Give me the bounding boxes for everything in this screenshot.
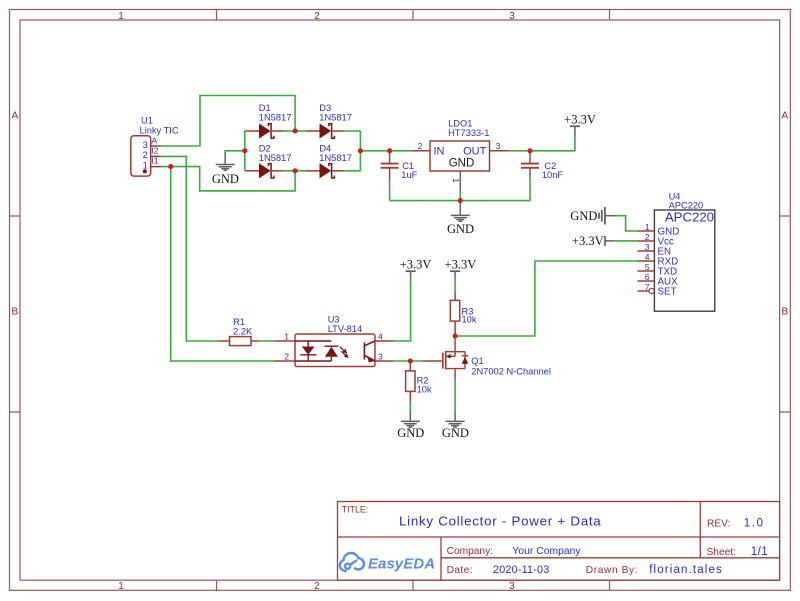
- svg-text:1N5817: 1N5817: [259, 113, 292, 123]
- svg-text:GND: GND: [442, 426, 469, 440]
- svg-text:3: 3: [509, 11, 515, 22]
- regulator LDO1 HT7333-1: [412, 119, 509, 201]
- svg-text:I2: I2: [151, 145, 158, 155]
- wire Q1 drain to U4 RXD: [455, 261, 637, 336]
- svg-text:+3.3V: +3.3V: [572, 234, 604, 248]
- svg-text:3: 3: [378, 351, 383, 361]
- svg-text:3: 3: [509, 581, 515, 592]
- wire U3.3 to Q1 gate: [394, 360, 423, 362]
- U1 pin 1: [151, 166, 161, 168]
- svg-text:10k: 10k: [462, 314, 477, 324]
- svg-text:A: A: [781, 110, 788, 121]
- svg-text:2: 2: [314, 11, 320, 22]
- power flag +3.3V (U3): [400, 257, 432, 278]
- svg-text:1: 1: [118, 11, 124, 22]
- svg-text:Linky TIC: Linky TIC: [140, 126, 179, 136]
- svg-text:OUT: OUT: [463, 146, 487, 158]
- ground (Q1): [446, 411, 465, 427]
- svg-text:2: 2: [284, 351, 289, 361]
- wire bridge out to LDO IN: [360, 150, 412, 152]
- svg-text:APC220: APC220: [665, 209, 714, 224]
- svg-text:B: B: [781, 306, 788, 317]
- svg-text:HT7333-1: HT7333-1: [448, 128, 489, 138]
- svg-text:1: 1: [143, 160, 148, 170]
- wire GND tap: [225, 151, 245, 154]
- svg-text:EasyEDA: EasyEDA: [368, 557, 435, 573]
- svg-text:TITLE:: TITLE:: [342, 505, 368, 515]
- svg-text:3: 3: [496, 141, 501, 151]
- svg-text:1: 1: [645, 222, 650, 232]
- svg-text:2: 2: [645, 232, 650, 242]
- svg-text:LDO1: LDO1: [448, 119, 472, 129]
- capacitor C2: [521, 151, 563, 201]
- wire net I1: U1.1 staircase to bridge bottom mid: [161, 167, 295, 191]
- svg-text:APC220: APC220: [669, 200, 704, 210]
- connector U4 APC220: [638, 192, 715, 312]
- svg-text:2: 2: [143, 150, 148, 160]
- svg-text:3: 3: [645, 242, 650, 252]
- svg-text:Date:: Date:: [447, 565, 473, 576]
- svg-text:Sheet:: Sheet:: [707, 547, 736, 558]
- svg-text:Linky Collector - Power + Data: Linky Collector - Power + Data: [399, 514, 601, 529]
- svg-text:10nF: 10nF: [542, 170, 564, 180]
- wire U3.4 to +3.3V: [394, 278, 411, 341]
- svg-text:4: 4: [378, 331, 383, 341]
- svg-text:Q1: Q1: [471, 356, 483, 366]
- EasyEDA logo: [340, 553, 364, 571]
- svg-text:2.2K: 2.2K: [233, 326, 253, 336]
- svg-text:1: 1: [451, 178, 461, 183]
- power flag +3.3V (LDO out): [564, 113, 596, 136]
- svg-text:1.0: 1.0: [744, 517, 765, 529]
- svg-text:7: 7: [645, 282, 650, 292]
- svg-text:Company:: Company:: [447, 546, 493, 557]
- svg-text:SET: SET: [658, 286, 677, 297]
- svg-text:3: 3: [143, 140, 148, 150]
- svg-text:10k: 10k: [417, 385, 432, 395]
- svg-text:2020-11-03: 2020-11-03: [493, 564, 549, 576]
- svg-text:U3: U3: [328, 315, 340, 325]
- svg-text:2: 2: [418, 141, 423, 151]
- svg-text:6: 6: [645, 272, 650, 282]
- svg-text:REV:: REV:: [707, 518, 730, 529]
- svg-text:+3.3V: +3.3V: [400, 257, 432, 271]
- wire net I2: U1.2 down to R1: [161, 156, 220, 341]
- U3 pin4 stub: [375, 340, 394, 342]
- U1 pin 3: [151, 145, 161, 147]
- svg-text:1/1: 1/1: [751, 546, 769, 558]
- svg-text:1N5817: 1N5817: [259, 153, 292, 163]
- resistor R3: [450, 278, 477, 336]
- U3 pin3 stub: [375, 360, 394, 362]
- svg-text:GND: GND: [397, 426, 424, 440]
- svg-text:U1: U1: [141, 116, 153, 126]
- svg-text:I1: I1: [151, 156, 158, 166]
- svg-text:1: 1: [284, 331, 289, 341]
- svg-text:Drawn By:: Drawn By:: [586, 565, 638, 576]
- svg-text:florian.tales: florian.tales: [649, 564, 723, 576]
- diode D1: [245, 103, 295, 138]
- svg-text:GND: GND: [447, 222, 474, 236]
- ground (bridge): [216, 154, 235, 171]
- svg-text:IN: IN: [434, 146, 445, 158]
- wire bottom rail C1-C2: [390, 200, 530, 202]
- wire net A: U1.3 to bridge top mid: [161, 96, 295, 147]
- transistor Q1 2N7002: [423, 336, 551, 411]
- wire bridge left rail: [244, 131, 246, 171]
- svg-text:1uF: 1uF: [401, 170, 417, 180]
- U1 pin 2: [151, 155, 161, 157]
- ground flag (U4 GND): [570, 207, 637, 231]
- svg-text:4: 4: [645, 252, 650, 262]
- svg-text:LTV-814: LTV-814: [328, 324, 362, 334]
- svg-text:1N5817: 1N5817: [319, 153, 352, 163]
- ground (LDO): [451, 201, 470, 222]
- svg-text:GND: GND: [212, 172, 239, 186]
- power flag +3.3V (R3): [445, 257, 477, 278]
- svg-text:+3.3V: +3.3V: [445, 257, 477, 271]
- power flag +3.3V (U4 Vcc): [572, 234, 638, 248]
- junction dots: [168, 128, 532, 363]
- wire net I1 branch down to U3.2: [171, 167, 275, 361]
- svg-text:Your Company: Your Company: [512, 546, 581, 557]
- optocoupler U3 LTV-814: [275, 315, 384, 367]
- svg-text:A: A: [11, 110, 18, 121]
- svg-text:+3.3V: +3.3V: [564, 113, 596, 127]
- svg-text:1: 1: [118, 581, 124, 592]
- ground (R2): [401, 411, 420, 427]
- resistor R1: [220, 317, 276, 346]
- svg-text:5: 5: [645, 262, 650, 272]
- svg-text:B: B: [11, 306, 18, 317]
- svg-text:GND: GND: [449, 157, 475, 169]
- svg-text:GND: GND: [570, 209, 597, 223]
- svg-text:2N7002 N-Channel: 2N7002 N-Channel: [471, 367, 551, 377]
- diode D4: [295, 144, 360, 178]
- svg-text:1N5817: 1N5817: [319, 113, 352, 123]
- svg-text:A: A: [151, 136, 157, 146]
- wire bridge right rail: [359, 131, 361, 171]
- wire LDO OUT to +3.3V: [509, 136, 575, 151]
- title block: [338, 502, 780, 581]
- connector U1: [131, 136, 151, 176]
- svg-text:2: 2: [314, 581, 320, 592]
- diode D3: [295, 103, 360, 138]
- diode D2: [245, 144, 295, 178]
- capacitor C1: [381, 151, 418, 201]
- resistor R2: [406, 361, 432, 411]
